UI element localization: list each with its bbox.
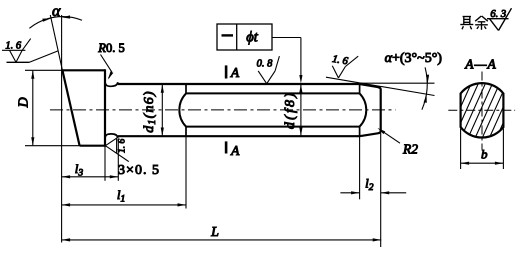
svg-text:3×0. 5: 3×0. 5: [118, 163, 160, 178]
svg-text:R0. 5: R0. 5: [97, 41, 124, 55]
svg-text:b: b: [481, 147, 488, 162]
svg-text:D: D: [17, 97, 32, 108]
svg-text:ϕt: ϕt: [246, 30, 259, 46]
svg-text:α: α: [52, 3, 61, 20]
svg-text:α+(3°~5°): α+(3°~5°): [385, 51, 443, 66]
svg-text:A: A: [230, 65, 240, 80]
svg-text:1. 6: 1. 6: [118, 139, 128, 154]
svg-text:L: L: [210, 225, 219, 240]
svg-text:R2: R2: [402, 141, 418, 156]
svg-text:d(f8): d(f8): [283, 91, 298, 129]
svg-text:d1(n6): d1(n6): [142, 90, 158, 133]
svg-text:A: A: [230, 143, 240, 158]
svg-text:1. 6: 1. 6: [5, 41, 22, 52]
svg-text:0. 8: 0. 8: [257, 58, 274, 69]
svg-text:A—A: A—A: [464, 57, 497, 72]
